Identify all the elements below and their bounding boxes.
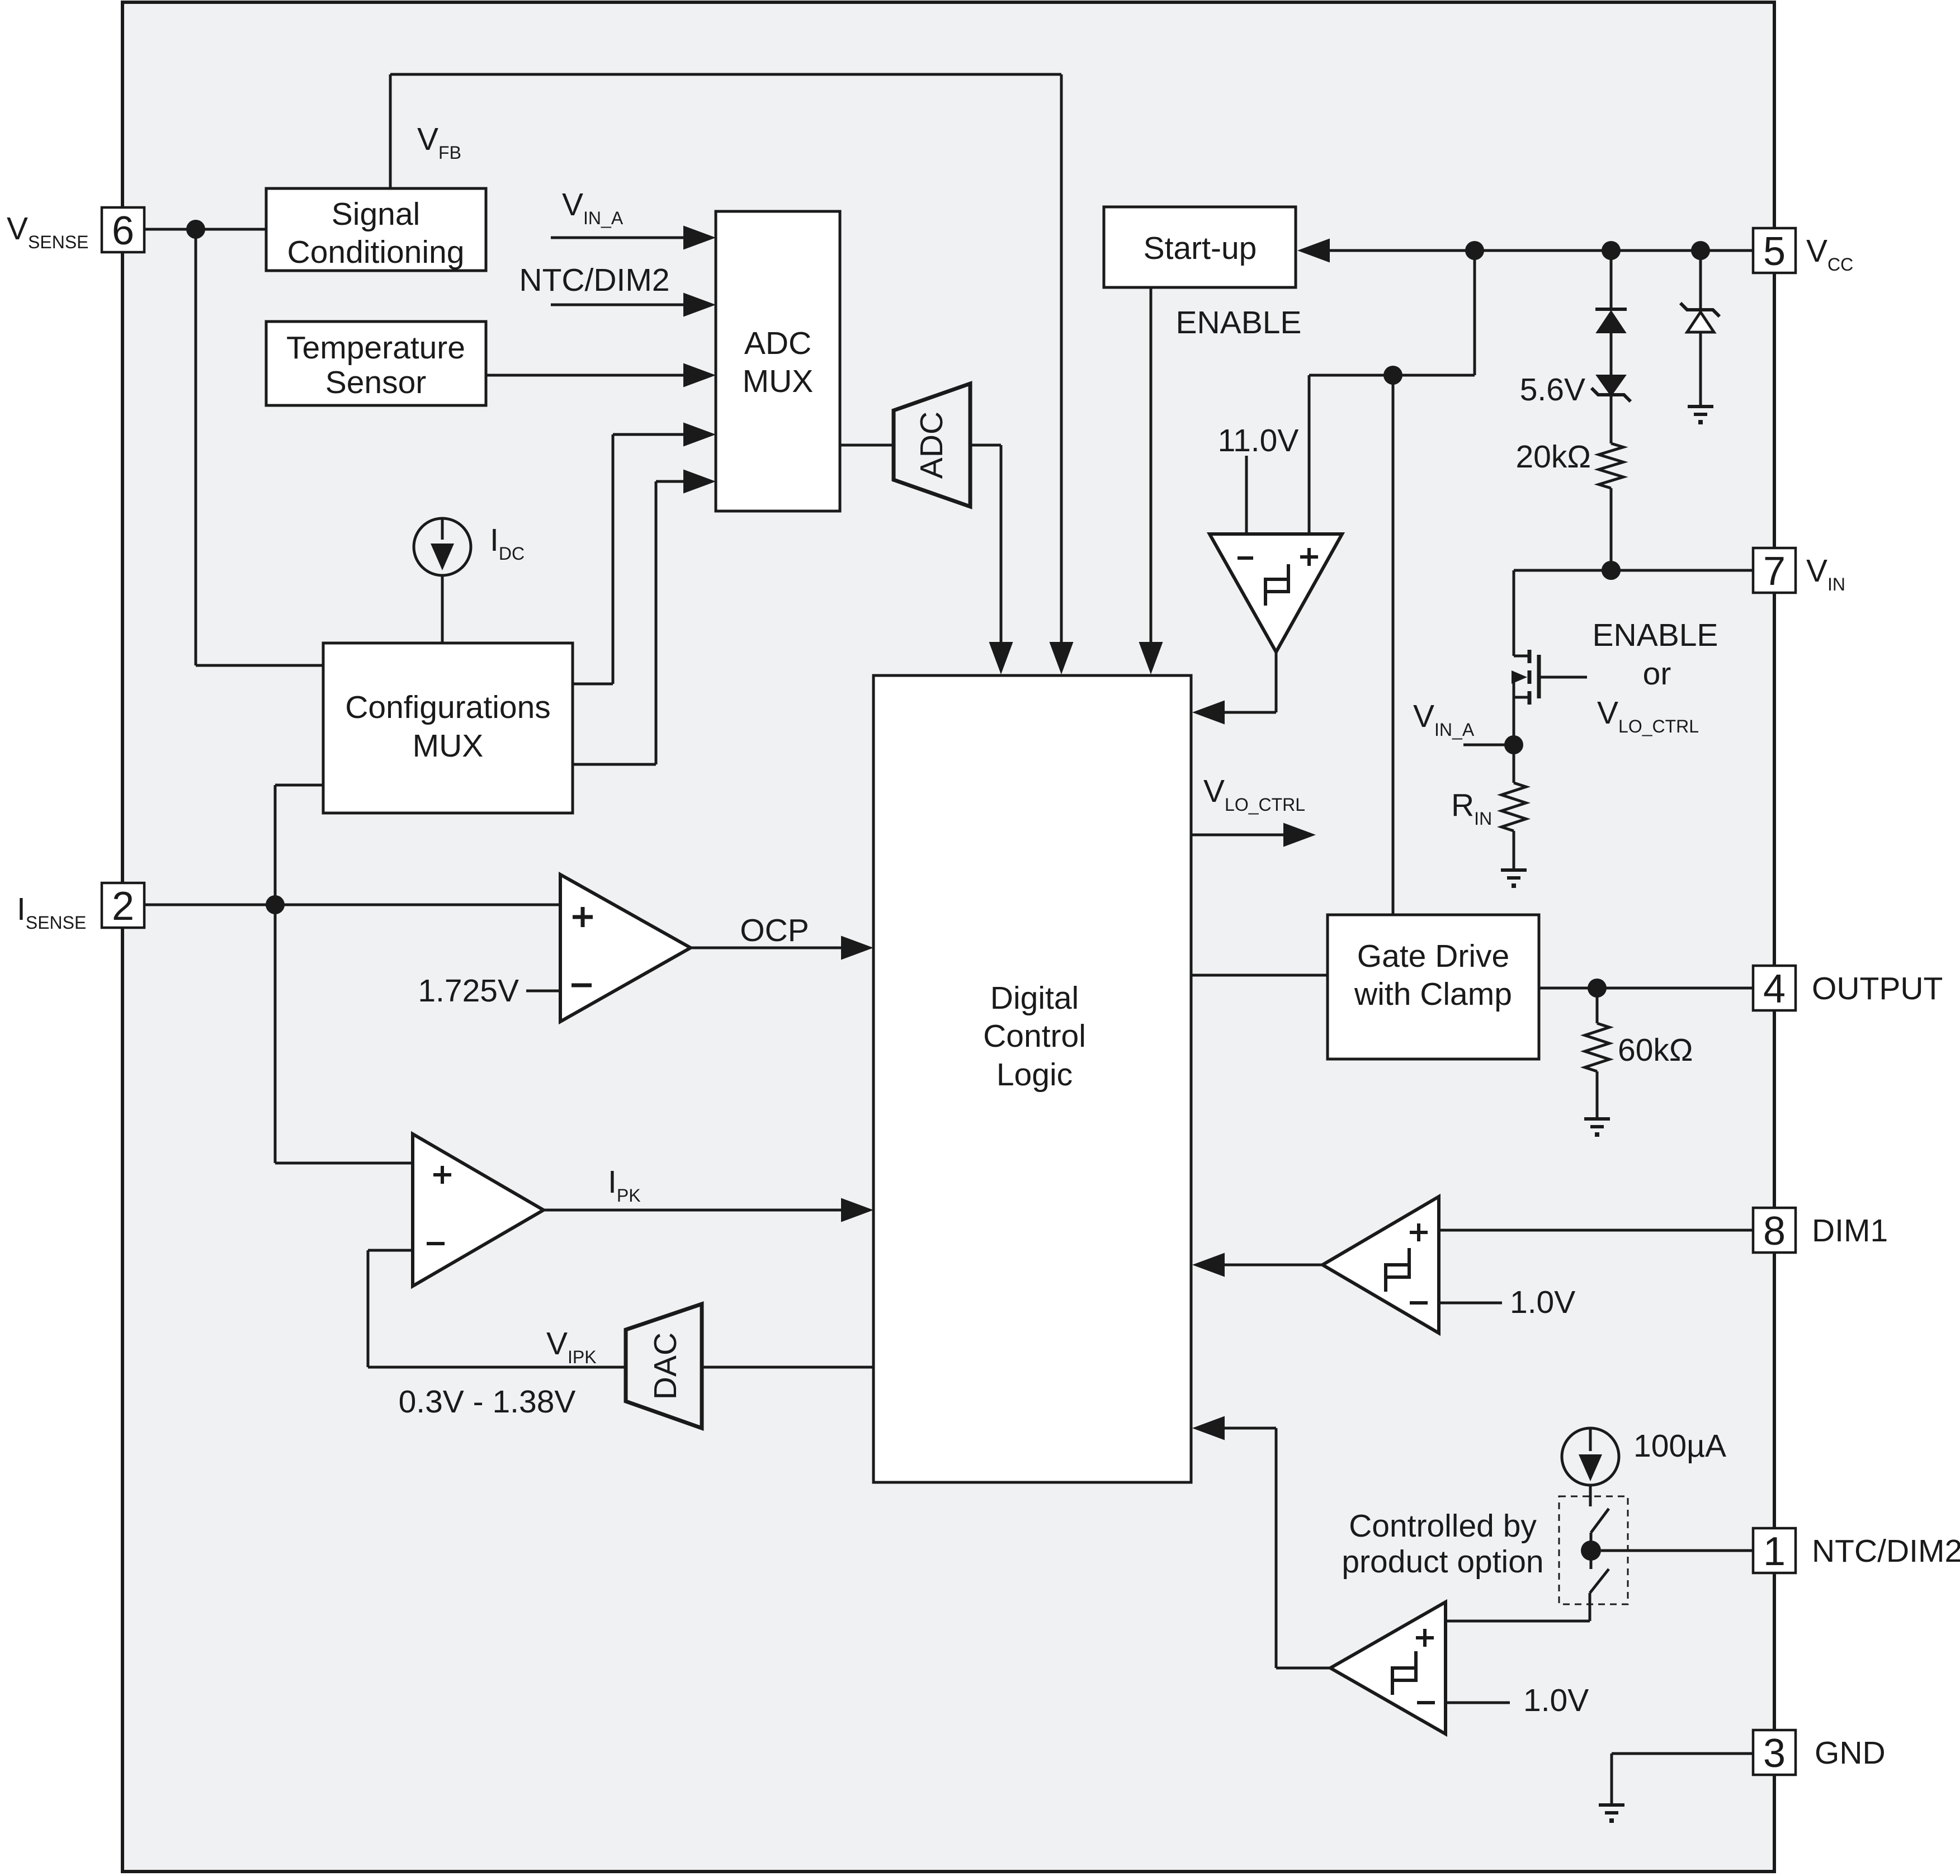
svg-text:GND: GND bbox=[1815, 1735, 1886, 1771]
svg-text:6: 6 bbox=[112, 209, 134, 253]
svg-text:Signal: Signal bbox=[332, 196, 420, 232]
svg-text:or: or bbox=[1643, 656, 1671, 692]
svg-text:3: 3 bbox=[1763, 1731, 1786, 1776]
svg-text:DIM1: DIM1 bbox=[1812, 1213, 1888, 1249]
svg-text:OCP: OCP bbox=[740, 913, 809, 948]
svg-text:1: 1 bbox=[1763, 1529, 1786, 1574]
svg-text:Temperature: Temperature bbox=[286, 330, 465, 366]
svg-text:MUX: MUX bbox=[413, 728, 484, 764]
svg-text:product option: product option bbox=[1342, 1544, 1543, 1580]
svg-text:Controlled by: Controlled by bbox=[1349, 1508, 1537, 1544]
svg-text:Conditioning: Conditioning bbox=[287, 234, 465, 270]
svg-text:7: 7 bbox=[1763, 549, 1786, 594]
svg-text:Gate Drive: Gate Drive bbox=[1357, 938, 1509, 974]
svg-text:0.3V - 1.38V: 0.3V - 1.38V bbox=[399, 1384, 576, 1420]
svg-text:ADC: ADC bbox=[914, 412, 950, 479]
svg-text:Start-up: Start-up bbox=[1144, 230, 1257, 266]
svg-text:Logic: Logic bbox=[996, 1057, 1073, 1093]
svg-text:DAC: DAC bbox=[648, 1332, 683, 1400]
svg-text:Configurations: Configurations bbox=[345, 689, 551, 725]
svg-text:60kΩ: 60kΩ bbox=[1618, 1032, 1693, 1068]
svg-text:MUX: MUX bbox=[743, 363, 814, 399]
svg-text:OUTPUT: OUTPUT bbox=[1812, 971, 1943, 1006]
svg-text:NTC/DIM2: NTC/DIM2 bbox=[519, 262, 669, 298]
svg-text:20kΩ: 20kΩ bbox=[1515, 439, 1591, 475]
svg-text:2: 2 bbox=[112, 884, 134, 929]
svg-text:with Clamp: with Clamp bbox=[1354, 976, 1512, 1012]
svg-text:11.0V: 11.0V bbox=[1218, 423, 1299, 459]
svg-text:Sensor: Sensor bbox=[325, 365, 427, 400]
svg-text:ADC: ADC bbox=[744, 325, 811, 361]
svg-text:5: 5 bbox=[1763, 229, 1786, 274]
svg-text:ENABLE: ENABLE bbox=[1176, 305, 1302, 341]
svg-text:Digital: Digital bbox=[990, 980, 1079, 1016]
svg-text:100µA: 100µA bbox=[1633, 1428, 1726, 1464]
svg-text:8: 8 bbox=[1763, 1209, 1786, 1254]
svg-text:1.725V: 1.725V bbox=[418, 973, 519, 1009]
svg-text:4: 4 bbox=[1763, 967, 1786, 1012]
svg-text:NTC/DIM2: NTC/DIM2 bbox=[1812, 1533, 1960, 1569]
svg-text:ENABLE: ENABLE bbox=[1593, 617, 1718, 653]
svg-text:1.0V: 1.0V bbox=[1510, 1284, 1575, 1320]
svg-text:5.6V: 5.6V bbox=[1520, 372, 1585, 408]
svg-text:1.0V: 1.0V bbox=[1523, 1683, 1589, 1718]
svg-text:Control: Control bbox=[983, 1018, 1086, 1054]
